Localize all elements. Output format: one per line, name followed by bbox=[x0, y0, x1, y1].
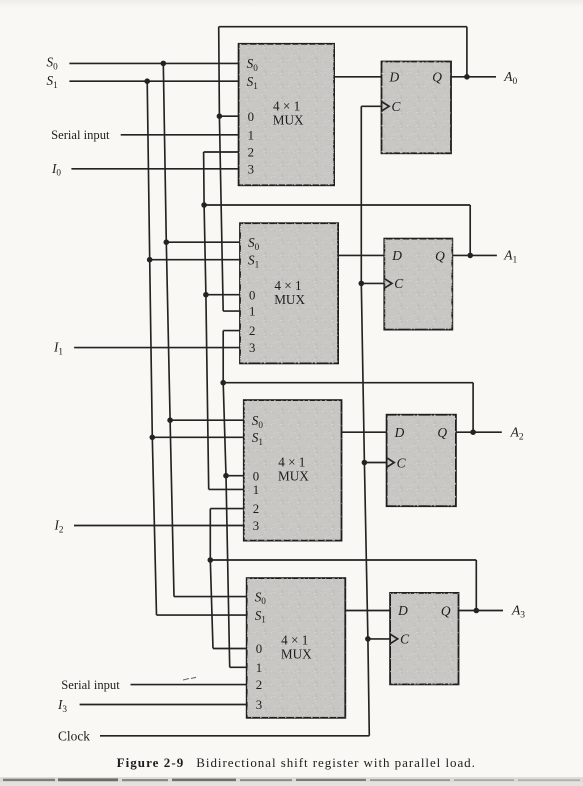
wire S1 to U4 bbox=[157, 614, 247, 616]
svg-text:MUX: MUX bbox=[281, 647, 312, 662]
svg-text:S0: S0 bbox=[47, 55, 59, 72]
wire FF4 Q to A3 output bbox=[459, 610, 504, 612]
svg-text:1: 1 bbox=[249, 305, 255, 319]
svg-text:Q: Q bbox=[435, 248, 445, 263]
svg-text:0: 0 bbox=[249, 288, 255, 302]
wire MUX U2 output to FF2 D bbox=[338, 254, 384, 256]
D flip-flop FF1 bbox=[382, 62, 452, 154]
D flip-flop FF4 bbox=[390, 593, 458, 685]
junction node Q2 bbox=[470, 429, 476, 435]
svg-text:I2: I2 bbox=[54, 518, 64, 535]
wire I2 to U3 pin3 bbox=[74, 525, 244, 527]
wire A2 rail bbox=[223, 331, 230, 668]
svg-text:2: 2 bbox=[248, 146, 254, 160]
junction S1 branch stage2 bbox=[147, 257, 153, 263]
wire A2 to U3 pin0 bbox=[226, 475, 244, 477]
svg-text:C: C bbox=[400, 632, 410, 647]
wire FF1 Q to A0 output bbox=[451, 76, 496, 78]
svg-text:A2: A2 bbox=[510, 424, 524, 442]
wire clock bbox=[100, 735, 369, 737]
wire clock rail bbox=[361, 106, 369, 736]
FF2 clock chevron bbox=[384, 279, 392, 289]
svg-text:C: C bbox=[394, 276, 404, 291]
junction A3 feedback tee bbox=[208, 557, 214, 563]
junction A2 feedback tee bbox=[220, 380, 226, 386]
svg-text:Clock: Clock bbox=[58, 728, 90, 743]
wire clock to FF2 C bbox=[361, 282, 384, 284]
wire A0 feedback top bbox=[219, 26, 467, 28]
junction S0 branch stage3 bbox=[167, 417, 173, 423]
FF3 clock chevron bbox=[387, 458, 395, 468]
page bottom scan edge bbox=[0, 777, 583, 786]
junction A1 to U2 pin0 bbox=[203, 292, 209, 298]
svg-text:C: C bbox=[392, 99, 402, 114]
svg-text:I1: I1 bbox=[53, 340, 63, 357]
svg-text:3: 3 bbox=[253, 519, 259, 533]
wire clock to FF1 C bbox=[361, 105, 381, 107]
wire A3 rail bbox=[210, 509, 213, 649]
wire I1 to U2 pin3 bbox=[74, 347, 240, 349]
svg-text:Serial input: Serial input bbox=[61, 678, 120, 692]
svg-text:0: 0 bbox=[253, 469, 259, 483]
svg-text:A1: A1 bbox=[503, 248, 517, 266]
wire serial input top to U1 pin1 bbox=[121, 134, 239, 136]
svg-text:D: D bbox=[397, 603, 408, 618]
svg-text:D: D bbox=[394, 425, 405, 440]
wire MUX U3 output to FF3 D bbox=[342, 431, 387, 433]
wire A1 to U3 pin1 bbox=[209, 488, 244, 490]
svg-text:3: 3 bbox=[256, 698, 262, 712]
svg-text:3: 3 bbox=[249, 341, 255, 355]
junction A1 feedback tee bbox=[201, 202, 207, 208]
svg-text:2: 2 bbox=[253, 502, 259, 516]
svg-text:1: 1 bbox=[248, 128, 254, 142]
junction S1 branch stage3 bbox=[150, 435, 156, 441]
svg-text:MUX: MUX bbox=[278, 469, 309, 484]
svg-text:0: 0 bbox=[256, 642, 262, 656]
wire A1 to U1 pin2 bbox=[204, 151, 239, 153]
wire A1 to U2 pin0 bbox=[206, 294, 240, 296]
wire A0 to U1 pin0 bbox=[219, 115, 238, 117]
wire S1 input bbox=[69, 80, 238, 82]
wire FF2 Q to A1 output bbox=[452, 254, 497, 256]
wire A3 feedback horizontal bbox=[210, 559, 476, 561]
wire S0 vertical rail bbox=[163, 63, 174, 596]
4x1 MUX U2 bbox=[240, 223, 338, 363]
svg-text:MUX: MUX bbox=[273, 112, 304, 127]
D flip-flop FF3 bbox=[387, 415, 456, 507]
FF1 clock chevron bbox=[382, 102, 390, 112]
wire FF3 Q to A2 output bbox=[456, 431, 502, 433]
svg-text:S1: S1 bbox=[47, 73, 59, 90]
D flip-flop FF2 bbox=[384, 239, 452, 330]
wire A0 rail bbox=[219, 27, 224, 311]
wire I0 to U1 pin3 bbox=[71, 168, 238, 170]
junction node Q0 bbox=[464, 74, 470, 80]
junction S1 branch stage1 bbox=[144, 78, 150, 84]
wire A3 feedback riser bbox=[475, 560, 477, 611]
wire A2 to U4 pin1 bbox=[230, 666, 247, 668]
svg-text:A0: A0 bbox=[503, 69, 517, 87]
wire S0 to U4 bbox=[174, 596, 247, 598]
svg-text:2: 2 bbox=[249, 324, 255, 338]
svg-text:1: 1 bbox=[253, 483, 259, 497]
wire clock to FF4 C bbox=[368, 638, 390, 640]
svg-text:A3: A3 bbox=[511, 603, 525, 621]
wire A3 to U4 pin0 bbox=[213, 648, 247, 650]
wire A2 feedback riser bbox=[472, 383, 474, 433]
junction A2 to U3 pin0 bbox=[223, 473, 229, 479]
wire S1 to U3 bbox=[152, 436, 244, 438]
svg-text:Bidirectional shift register w: Bidirectional shift register with parall… bbox=[196, 755, 476, 770]
svg-text:Q: Q bbox=[437, 425, 447, 440]
svg-text:2: 2 bbox=[256, 678, 262, 692]
wire A3 to U3 pin2 bbox=[210, 508, 244, 510]
4x1 MUX U4 bbox=[247, 578, 346, 718]
junction clock FF2 bbox=[359, 281, 365, 287]
wire S1 vertical rail bbox=[147, 81, 156, 615]
junction clock FF3 bbox=[362, 460, 368, 466]
svg-text:4 × 1: 4 × 1 bbox=[274, 278, 301, 293]
svg-text:MUX: MUX bbox=[274, 292, 305, 307]
wire I3 to U4 pin3 bbox=[80, 704, 247, 706]
junction S0 branch stage1 bbox=[161, 61, 167, 67]
svg-text:I3: I3 bbox=[57, 697, 67, 714]
wire MUX U1 output to FF1 D bbox=[334, 76, 381, 78]
wire clock to FF3 C bbox=[364, 462, 386, 464]
svg-text:4 × 1: 4 × 1 bbox=[278, 455, 305, 470]
wire A0 feedback riser bbox=[466, 27, 468, 77]
FF4 clock chevron bbox=[390, 634, 398, 644]
wire A1 feedback riser bbox=[469, 205, 471, 255]
wire A2 feedback horizontal bbox=[223, 382, 473, 384]
svg-text:Q: Q bbox=[432, 70, 442, 85]
wire A0 to U2 pin1 bbox=[223, 310, 240, 312]
svg-text:I0: I0 bbox=[51, 161, 61, 178]
svg-text:Figure 2-9: Figure 2-9 bbox=[117, 755, 185, 770]
svg-text:D: D bbox=[391, 248, 402, 263]
junction node Q1 bbox=[467, 253, 473, 259]
wire S0 to U3 bbox=[170, 419, 244, 421]
wire S0 input bbox=[69, 62, 238, 64]
wire MUX U4 output to FF4 D bbox=[345, 610, 390, 612]
svg-text:4 × 1: 4 × 1 bbox=[273, 98, 300, 113]
svg-text:0: 0 bbox=[248, 110, 254, 124]
junction node Q3 bbox=[474, 608, 480, 614]
wire A1 rail bbox=[204, 152, 209, 489]
svg-text:D: D bbox=[389, 70, 400, 85]
4x1 MUX U3 bbox=[244, 400, 342, 540]
svg-text:C: C bbox=[397, 455, 407, 470]
wire S1 to U2 bbox=[150, 259, 240, 261]
wire S0 to U2 bbox=[166, 241, 240, 243]
junction clock FF4 bbox=[365, 636, 371, 642]
svg-text:1: 1 bbox=[256, 661, 262, 675]
svg-text:3: 3 bbox=[248, 162, 254, 176]
svg-text:Q: Q bbox=[441, 603, 451, 618]
wire serial input bottom to U4 pin2 bbox=[131, 684, 247, 686]
svg-text:Serial input: Serial input bbox=[51, 128, 110, 142]
junction S0 branch stage2 bbox=[164, 239, 170, 245]
wire A2 to U2 pin2 bbox=[223, 330, 240, 332]
wire A1 feedback horizontal bbox=[204, 204, 470, 206]
scan shading top edge bbox=[0, 0, 1, 1]
svg-text:4 × 1: 4 × 1 bbox=[281, 633, 308, 648]
stray pen mark near serial input wire bbox=[183, 677, 196, 680]
4x1 MUX U1 bbox=[239, 44, 335, 186]
junction A0 to U1 pin0 bbox=[217, 113, 223, 119]
